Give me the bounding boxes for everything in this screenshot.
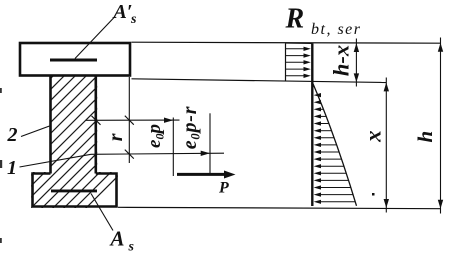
arrow at v4 on line B — [201, 151, 210, 156]
extension line v2 — [128, 77, 130, 163]
svg-text:r: r — [105, 133, 127, 141]
leader As — [91, 194, 113, 231]
stress block arrows — [286, 49, 305, 76]
svg-text:1: 1 — [7, 157, 17, 179]
svg-text:bt, ser: bt, ser — [311, 21, 362, 38]
compression triangle envelope — [313, 84, 357, 206]
small dot — [372, 193, 375, 196]
reinforcement bar As (bottom) — [51, 189, 97, 192]
svg-text:2: 2 — [7, 124, 18, 146]
svg-text:s: s — [128, 240, 135, 255]
svg-text:h-x: h-x — [329, 45, 354, 76]
svg-text:h: h — [413, 131, 437, 143]
tensile stress block right edge (thick vertical, continues down as triangle base) — [311, 44, 313, 207]
tick at v1 — [92, 116, 101, 125]
svg-text:A′: A′ — [112, 1, 133, 23]
edge specks — [0, 88, 2, 93]
triangle arrows pointing left — [318, 95, 356, 202]
tensile stress block left edge — [285, 43, 287, 81]
tick at v2 — [125, 116, 134, 125]
arrow at v3 on dim line A — [164, 118, 173, 123]
x dimension — [385, 78, 387, 213]
beam top line — [132, 42, 442, 43]
svg-text:s: s — [130, 12, 137, 27]
tick at v2 on line B — [125, 150, 134, 159]
force P arrow — [177, 173, 230, 176]
leader 2 — [21, 126, 50, 137]
bottom flange outline — [33, 174, 117, 207]
svg-text:R: R — [285, 4, 305, 35]
svg-text:e0p-r: e0p-r — [179, 106, 203, 150]
svg-text:P: P — [218, 180, 229, 197]
web right edge — [95, 76, 98, 174]
svg-text:A: A — [109, 226, 125, 250]
leader 1 — [20, 154, 92, 167]
beam middle (zero-stress) line — [132, 79, 387, 83]
web left edge — [49, 76, 52, 174]
top flange outline — [20, 43, 130, 76]
beam bottom line — [118, 207, 441, 208]
hatching of web and bottom flange — [0, 70, 224, 230]
dimension line r / e0p — [86, 119, 180, 121]
reinforcement bar A's (top) — [50, 59, 97, 62]
extension line v4 — [209, 113, 211, 173]
leader A's — [75, 17, 115, 59]
h dimension — [440, 38, 442, 214]
extension line v3 — [172, 118, 174, 177]
h-x dimension — [355, 39, 357, 87]
svg-text:x: x — [360, 130, 385, 143]
dimension line e0p-r — [91, 153, 224, 154]
block top edge — [286, 42, 313, 44]
